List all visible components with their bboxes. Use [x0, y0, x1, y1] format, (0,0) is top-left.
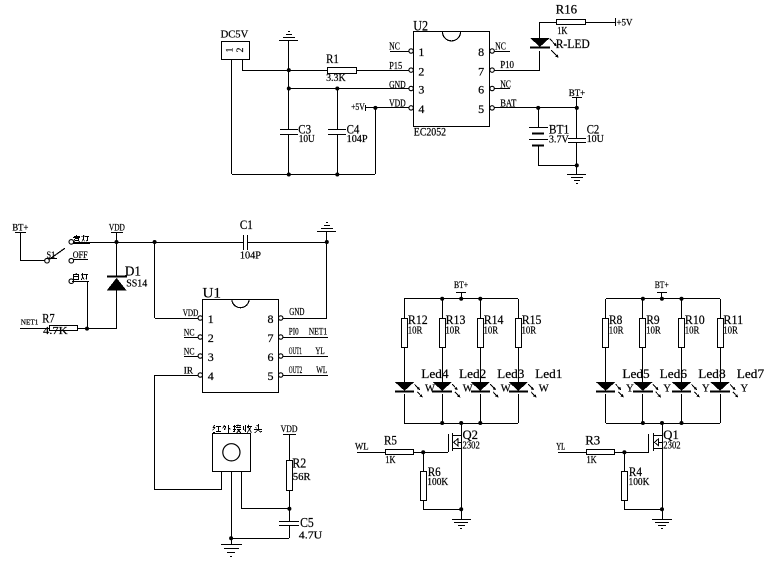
- U1 pin4 IR wire: [155, 375, 198, 377]
- wire LED to bottom bus 2: [442, 394, 444, 423]
- wire ground to C3: [288, 41, 290, 129]
- svg-text:NC: NC: [389, 42, 400, 53]
- battery BT1: [529, 128, 548, 146]
- wire GND line to U2 pin3: [289, 88, 409, 90]
- U1 pin1 wire: [155, 318, 198, 320]
- LED arrows Led6: [653, 384, 661, 397]
- ground C1: [317, 223, 336, 232]
- LED arrows R-LED: [550, 39, 559, 58]
- wire battery to C2 bottom: [538, 165, 577, 167]
- wire LED to bottom bus 4: [518, 394, 520, 423]
- wire column top 3: [681, 299, 683, 318]
- svg-text:NET1: NET1: [309, 328, 328, 338]
- wire 100K to source: [624, 509, 662, 511]
- transistor Q1 2302: [649, 433, 663, 452]
- svg-text:3.3K: 3.3K: [326, 73, 346, 84]
- svg-text:4.7U: 4.7U: [299, 530, 323, 541]
- U2 right pin circle 8: [490, 49, 494, 53]
- svg-text:1: 1: [226, 47, 236, 52]
- wire VDD to R2: [289, 435, 291, 460]
- pin 6 stub: [283, 356, 328, 358]
- svg-text:10R: 10R: [723, 325, 738, 336]
- pin 1 NC stub: [390, 51, 409, 53]
- svg-text:U1: U1: [203, 286, 222, 302]
- svg-text:56R: 56R: [293, 472, 311, 483]
- svg-text:SS14: SS14: [126, 279, 147, 290]
- svg-text:10R: 10R: [646, 325, 661, 336]
- junction white-light branch: [85, 327, 89, 331]
- wire resistor to LED 1: [404, 348, 406, 382]
- svg-text:Led2: Led2: [459, 366, 486, 381]
- wire LED anode up: [539, 22, 541, 38]
- svg-text:104P: 104P: [240, 249, 261, 261]
- wire resistor to LED 4: [518, 348, 520, 382]
- resistor R2: [287, 461, 293, 491]
- svg-text:R7: R7: [42, 310, 55, 325]
- LED R-LED: [530, 38, 550, 47]
- net flag BT+ (bank Q2): [456, 292, 466, 294]
- diode D1 SS14: [107, 277, 127, 291]
- wire +5V to U2 pin4: [366, 107, 409, 109]
- underline yellow-light: [73, 243, 90, 245]
- wire VDD down: [116, 233, 118, 242]
- svg-text:Led8: Led8: [698, 366, 725, 381]
- svg-text:+5V: +5V: [351, 103, 365, 113]
- svg-text:WL: WL: [355, 442, 369, 452]
- svg-text:1: 1: [208, 312, 214, 326]
- svg-text:10U: 10U: [587, 134, 605, 145]
- CJK char tou: [254, 424, 262, 433]
- resistor R1: [328, 68, 357, 74]
- LED arrows Led3: [490, 384, 498, 397]
- resistor R15: [516, 319, 522, 348]
- op-amp/IC U2 EC2052: [414, 32, 490, 127]
- wire to R1: [242, 70, 328, 72]
- junction: [680, 297, 684, 301]
- wire column top 4: [720, 299, 722, 318]
- switch S1: [45, 240, 74, 284]
- pin 5 BAT wire: [494, 107, 538, 109]
- svg-text:VDD: VDD: [281, 425, 298, 435]
- svg-text:7: 7: [268, 331, 274, 345]
- resistor R16: [557, 20, 586, 25]
- junction: [229, 536, 233, 540]
- wire LED cathode down: [539, 51, 541, 70]
- wire gate: [413, 452, 448, 454]
- CJK char huang: [73, 235, 80, 242]
- U2 right pin circle 5: [490, 106, 494, 110]
- U1 right pin circle 5: [279, 373, 283, 377]
- svg-text:104P: 104P: [347, 134, 368, 145]
- junction: [478, 297, 482, 301]
- wire bottom bus: [606, 423, 720, 425]
- wire BT+ down: [576, 98, 578, 108]
- U1 left pin circle 3: [198, 354, 202, 358]
- IR receiver module: [213, 434, 251, 472]
- junction: [325, 240, 329, 244]
- resistor R8: [603, 319, 609, 348]
- resistor R4: [622, 472, 628, 501]
- LED Led7: [710, 382, 730, 392]
- svg-text:GND: GND: [289, 307, 304, 318]
- wire VDD net down: [154, 242, 156, 318]
- wire YL to R3: [558, 452, 586, 454]
- svg-text:10R: 10R: [484, 325, 499, 336]
- wire D1 cathode up: [116, 242, 118, 276]
- junction: [641, 421, 645, 425]
- svg-text:Y: Y: [741, 383, 749, 394]
- svg-text:100K: 100K: [427, 477, 449, 488]
- U1 left pin circle 4: [198, 373, 202, 377]
- svg-text:OUT1: OUT1: [289, 347, 302, 357]
- ground Q1: [652, 520, 672, 529]
- pin 8 NC stub: [494, 51, 510, 53]
- CJK char hong: [213, 425, 222, 433]
- svg-text:U2: U2: [413, 18, 428, 34]
- junction C3/pin2 line: [287, 68, 291, 72]
- svg-text:4: 4: [418, 102, 424, 116]
- wire C1 to ground net: [247, 242, 327, 244]
- capacitor C4: [328, 130, 346, 135]
- svg-text:Led5: Led5: [622, 366, 649, 381]
- junction: [459, 297, 463, 301]
- svg-text:2: 2: [418, 64, 424, 78]
- U1 left pin circle 2: [198, 335, 202, 339]
- pin 5 stub: [283, 375, 328, 377]
- svg-text:C1: C1: [240, 218, 253, 232]
- wire top bus: [606, 298, 720, 300]
- svg-text:2302: 2302: [663, 440, 680, 451]
- svg-text:10R: 10R: [685, 325, 700, 336]
- CJK char wai: [223, 425, 231, 433]
- wire drain-source rail: [662, 423, 664, 520]
- junction: [680, 421, 684, 425]
- svg-text:1K: 1K: [385, 455, 396, 466]
- svg-text:2: 2: [208, 331, 214, 345]
- net flag BT+: [572, 97, 582, 99]
- pin 7 stub: [283, 337, 328, 339]
- ground receiver: [221, 545, 242, 557]
- junction: [575, 106, 579, 110]
- capacitor C5: [279, 522, 299, 526]
- svg-text:YL: YL: [315, 347, 324, 357]
- LED Led4: [395, 382, 414, 392]
- resistor R5: [386, 450, 414, 455]
- U2 left pin circle 2: [409, 68, 413, 72]
- svg-text:GND: GND: [389, 80, 406, 91]
- wire resistor to LED 2: [442, 348, 444, 382]
- junction: [287, 173, 291, 177]
- wire to switch pole: [20, 260, 45, 262]
- wire column top 2: [642, 299, 644, 318]
- wire white-light down: [87, 281, 89, 329]
- svg-text:6: 6: [268, 350, 274, 364]
- underline white-light: [72, 281, 89, 283]
- ground Q2: [452, 520, 471, 529]
- wire column top 1: [404, 299, 406, 318]
- ground battery: [567, 175, 586, 184]
- svg-text:3: 3: [208, 350, 214, 364]
- svg-text:BT+: BT+: [569, 89, 585, 99]
- LED arrows Led5: [616, 384, 624, 397]
- resistor R12: [402, 319, 408, 348]
- pin 7 P10 wire: [494, 70, 540, 72]
- resistor R10: [679, 319, 685, 348]
- junction C3/GND line: [287, 87, 291, 91]
- svg-text:8: 8: [478, 45, 484, 59]
- junction: [440, 421, 444, 425]
- resistor R13: [440, 319, 446, 348]
- junction: [459, 421, 463, 425]
- svg-text:W: W: [539, 383, 549, 394]
- svg-text:VDD: VDD: [389, 98, 406, 109]
- pin 6 NC stub: [494, 88, 510, 90]
- junction: [641, 297, 645, 301]
- svg-text:P10: P10: [500, 60, 514, 71]
- net flag VDD: [111, 232, 123, 234]
- wire receiver pin2 down: [231, 471, 233, 538]
- LED arrows Led4: [415, 384, 423, 397]
- wire LED to bottom bus 3: [480, 394, 482, 423]
- LED Led3: [471, 382, 490, 392]
- LED Led6: [633, 382, 653, 392]
- wire C5 bottom: [289, 526, 291, 538]
- wire switch to C1: [74, 242, 244, 244]
- svg-text:4: 4: [208, 369, 214, 383]
- wire BAT node: [538, 107, 577, 109]
- wire gate to 100K: [624, 452, 626, 471]
- U2 left pin circle 3: [409, 86, 413, 90]
- wire LED to bottom bus 4: [720, 394, 722, 423]
- svg-text:BAT: BAT: [500, 98, 516, 109]
- junction: [478, 421, 482, 425]
- wire C4 bottom: [337, 134, 339, 174]
- LED Led5: [596, 382, 615, 392]
- wire gate: [614, 452, 649, 454]
- resistor R9: [640, 319, 646, 348]
- wire resistor to LED 1: [605, 348, 607, 382]
- wire resistor to LED 3: [681, 348, 683, 382]
- wire to ground: [576, 165, 578, 174]
- CJK char bai: [74, 273, 79, 280]
- svg-text:NET1: NET1: [21, 317, 39, 326]
- wire R2 to C5: [289, 491, 291, 521]
- CJK char deng2: [81, 273, 88, 280]
- wire R1 to U2 pin2: [356, 70, 409, 72]
- svg-text:8: 8: [268, 312, 274, 326]
- wire column top 3: [480, 299, 482, 318]
- svg-text:2: 2: [236, 47, 246, 52]
- svg-text:DC5V: DC5V: [221, 30, 249, 41]
- svg-text:1K: 1K: [587, 455, 598, 466]
- wire resistor to LED 4: [720, 348, 722, 382]
- wire column top 4: [518, 299, 520, 318]
- wire bottom rail: [232, 174, 375, 176]
- svg-text:NC: NC: [495, 42, 506, 53]
- svg-text:5: 5: [268, 369, 274, 383]
- junction: [115, 240, 119, 244]
- svg-text:NC: NC: [184, 328, 195, 338]
- junction C4 top: [335, 87, 339, 91]
- pin 3 NC stub: [184, 356, 198, 358]
- svg-text:10R: 10R: [408, 325, 423, 336]
- svg-text:Led4: Led4: [421, 366, 449, 381]
- connector DC5V: [222, 42, 250, 60]
- svg-text:10U: 10U: [299, 134, 316, 145]
- junction: [335, 173, 339, 177]
- wire white-light contact: [74, 281, 87, 283]
- U1 right pin circle 6: [279, 354, 283, 358]
- net flag BT+ (bank Q1): [657, 292, 667, 294]
- wire top bus: [404, 298, 518, 300]
- pin 2 NC stub: [184, 337, 198, 339]
- wire IR down: [154, 375, 156, 490]
- wire resistor to LED 2: [642, 348, 644, 382]
- wire column top 1: [605, 299, 607, 318]
- S1 underline: [46, 258, 57, 260]
- wire C3 bottom: [288, 134, 290, 174]
- svg-text:Led6: Led6: [660, 366, 688, 381]
- U2 left pin circle 1: [409, 49, 413, 53]
- wire LED to bottom bus 2: [642, 394, 644, 423]
- wire BT+ down: [461, 292, 463, 299]
- svg-text:YL: YL: [556, 442, 565, 452]
- CJK char shou: [244, 425, 253, 433]
- wire battery top: [538, 108, 540, 128]
- svg-text:10R: 10R: [522, 325, 537, 336]
- svg-text:1: 1: [418, 45, 424, 59]
- wire to R16: [540, 22, 557, 24]
- svg-text:BT+: BT+: [655, 281, 669, 291]
- junction: [575, 163, 579, 167]
- wire D1 anode down: [116, 290, 118, 329]
- svg-text:7: 7: [478, 64, 484, 78]
- wire LED to bottom bus 1: [404, 394, 406, 423]
- wire receiver pin3 to C5 node: [242, 508, 289, 510]
- resistor R7: [50, 326, 78, 331]
- wire BT+ down: [661, 292, 663, 299]
- capacitor C2: [568, 139, 586, 143]
- LED arrows Led7: [730, 384, 738, 397]
- wire C2 bottom: [576, 142, 578, 165]
- wire bottom bus: [404, 423, 518, 425]
- power flag +5V (right): [615, 18, 617, 26]
- U1 right pin circle 8: [279, 316, 283, 320]
- capacitor C1: [244, 235, 248, 250]
- wire NET1 to R7: [20, 328, 49, 330]
- op-amp/IC U1: [203, 299, 279, 393]
- svg-text:Y: Y: [626, 383, 634, 394]
- svg-text:W: W: [501, 383, 511, 394]
- wire LED to bottom bus 1: [605, 394, 607, 423]
- underline OFF: [73, 259, 88, 261]
- svg-text:100K: 100K: [629, 477, 651, 488]
- svg-text:EC2052: EC2052: [414, 127, 447, 139]
- svg-text:W: W: [425, 383, 435, 394]
- wire DC5V pin2 down: [242, 59, 244, 70]
- wire R7 to D1: [78, 328, 116, 330]
- U1 pin8 wire: [283, 318, 327, 320]
- svg-text:R1: R1: [326, 51, 339, 66]
- LED arrows Led8: [692, 384, 700, 397]
- svg-text:Led3: Led3: [497, 366, 524, 381]
- wire LED to bottom bus 3: [681, 394, 683, 423]
- svg-text:BT+: BT+: [454, 281, 468, 291]
- U2 left pin circle 4: [409, 106, 413, 110]
- wire C5 to ground node: [231, 538, 289, 540]
- svg-text:IR: IR: [184, 366, 194, 376]
- wire R16 to +5V: [586, 22, 615, 24]
- resistor R11: [718, 319, 724, 348]
- svg-text:VDD: VDD: [109, 224, 125, 234]
- svg-text:P15: P15: [389, 61, 402, 72]
- U1 right pin circle 7: [279, 335, 283, 339]
- LED Led2: [432, 382, 452, 392]
- svg-text:WL: WL: [316, 366, 327, 376]
- junction gate: [622, 450, 626, 454]
- svg-text:OUT2: OUT2: [289, 366, 303, 376]
- net flag BT+ (switch): [15, 232, 26, 234]
- svg-text:NC: NC: [500, 80, 511, 91]
- LED arrows Led2: [452, 384, 460, 397]
- svg-text:PI0: PI0: [289, 328, 299, 338]
- svg-text:+5V: +5V: [617, 18, 633, 28]
- svg-text:W: W: [463, 383, 473, 394]
- svg-text:OFF: OFF: [73, 250, 88, 260]
- U2 right pin circle 6: [490, 86, 494, 90]
- svg-text:3: 3: [418, 83, 424, 97]
- wire 100K down: [423, 501, 425, 509]
- svg-text:R2: R2: [292, 456, 306, 471]
- resistor R6: [421, 472, 427, 501]
- resistor R3: [587, 450, 615, 455]
- svg-text:Y: Y: [702, 383, 710, 394]
- CJK char deng: [82, 235, 89, 242]
- ground top: [279, 32, 298, 41]
- LED Led1: [509, 382, 528, 392]
- svg-text:R16: R16: [556, 3, 577, 17]
- wire 100K to source: [423, 509, 461, 511]
- svg-text:NC: NC: [184, 347, 195, 357]
- svg-text:C5: C5: [300, 515, 314, 530]
- svg-text:1K: 1K: [557, 26, 568, 37]
- junction +5V node: [373, 106, 377, 110]
- wire column top 2: [442, 299, 444, 318]
- resistor R14: [478, 319, 484, 348]
- wire gate to 100K: [423, 452, 425, 471]
- net flag VDD (R2): [283, 434, 296, 436]
- wire receiver pin1: [221, 471, 223, 490]
- svg-text:3.7V: 3.7V: [549, 135, 570, 146]
- svg-text:4.7K: 4.7K: [43, 326, 69, 337]
- junction R2/receiver: [287, 507, 291, 511]
- wire battery bottom: [538, 146, 540, 165]
- wire receiver pin3 down: [241, 471, 243, 509]
- wire C2 top: [576, 108, 578, 138]
- svg-text:10R: 10R: [445, 325, 460, 336]
- svg-text:R5: R5: [384, 433, 397, 448]
- wire drain-source rail: [461, 423, 463, 520]
- junction: [660, 297, 664, 301]
- svg-text:Led1: Led1: [535, 366, 562, 381]
- junction: [153, 240, 157, 244]
- junction gate: [421, 450, 425, 454]
- svg-text:BT+: BT+: [12, 224, 28, 234]
- svg-text:Led7: Led7: [737, 366, 765, 381]
- wire to ground: [231, 538, 233, 544]
- svg-text:6: 6: [478, 83, 484, 97]
- junction: [536, 106, 540, 110]
